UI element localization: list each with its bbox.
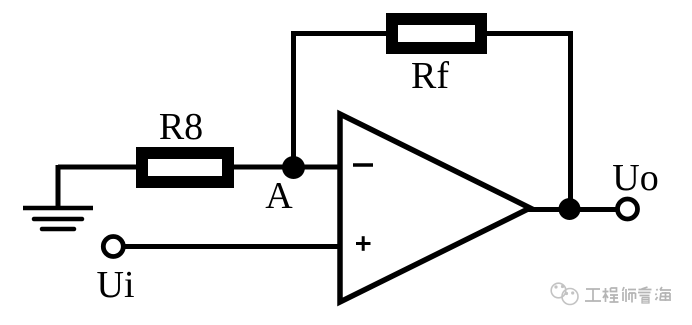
wire R8-to-node-A <box>228 165 340 170</box>
ground <box>23 208 93 229</box>
wire ground-to-R8 <box>58 165 145 170</box>
svg-text:R8: R8 <box>159 106 203 148</box>
wire ground vertical <box>56 165 61 210</box>
resistor Rf <box>392 19 481 48</box>
wire opamp-output <box>528 207 617 212</box>
svg-text:Ui: Ui <box>97 264 135 306</box>
terminal Uo <box>618 199 638 219</box>
node output junction <box>559 198 581 220</box>
看 <box>638 287 652 303</box>
wire Ui-to-opamp <box>124 244 340 249</box>
wire feedback left vertical <box>291 34 296 168</box>
op-amp plus pin mark <box>356 236 371 251</box>
程 <box>603 288 619 302</box>
svg-text:Rf: Rf <box>411 55 449 97</box>
op-amp U1 <box>340 114 530 302</box>
watermark logo <box>551 283 578 304</box>
node A <box>282 156 305 179</box>
op-amp minus pin mark <box>353 163 373 167</box>
resistor R8 <box>142 153 228 182</box>
terminal Ui <box>103 237 123 257</box>
师 <box>623 287 637 303</box>
海 <box>656 287 672 301</box>
svg-text:A: A <box>265 175 293 217</box>
wire feedback right vertical <box>568 31 573 210</box>
svg-text:Uo: Uo <box>612 157 658 199</box>
watermark text 工程师看海 (drawn) <box>585 287 671 303</box>
wire feedback top left <box>291 31 395 36</box>
wire feedback top right <box>478 31 570 36</box>
工 <box>585 289 601 301</box>
